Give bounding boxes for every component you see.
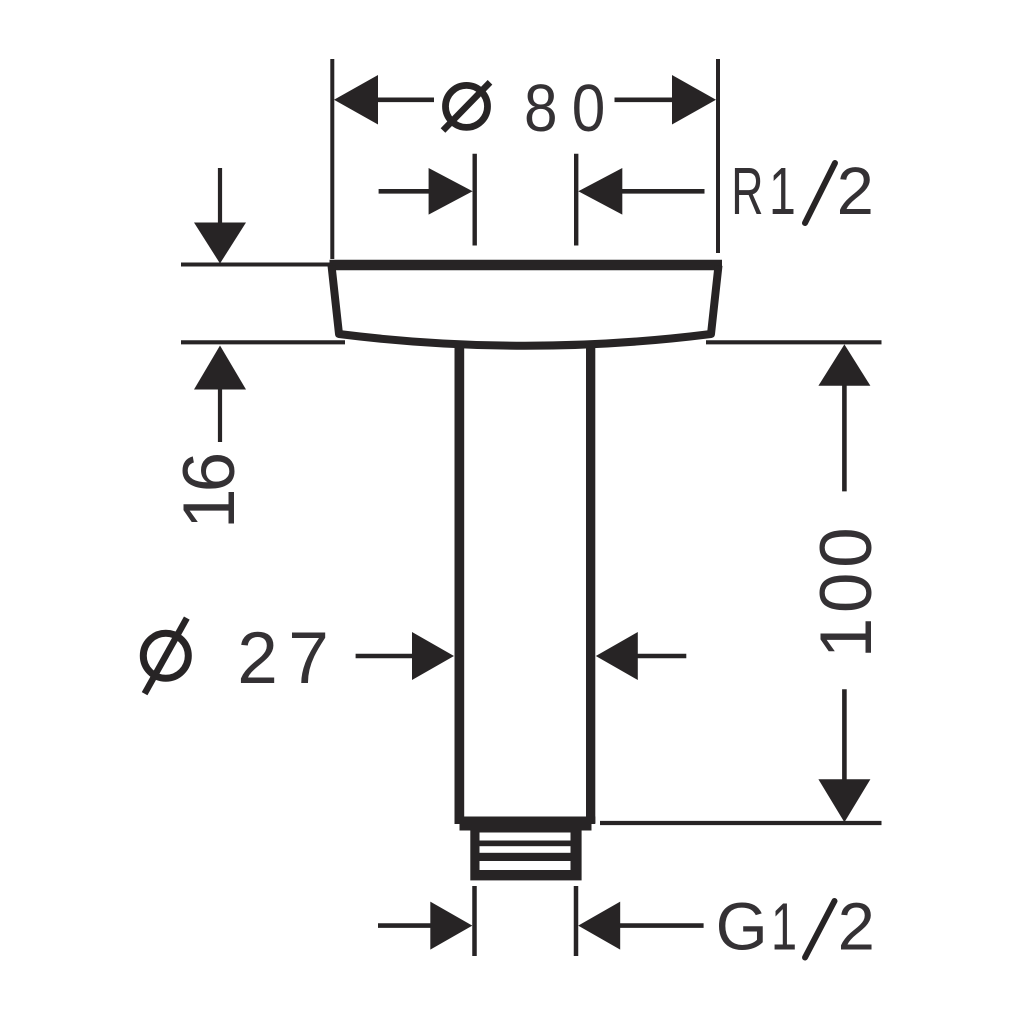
svg-text:1: 1 [771,890,797,964]
svg-text:1: 1 [769,155,796,230]
svg-text:2: 2 [837,154,874,229]
svg-text:2: 2 [838,890,875,965]
svg-text:R: R [731,154,763,229]
svg-text:27: 27 [237,618,339,699]
svg-text:100: 100 [806,523,887,659]
svg-text:16: 16 [169,454,250,529]
svg-text:80: 80 [524,70,619,146]
svg-text:G: G [716,890,768,965]
